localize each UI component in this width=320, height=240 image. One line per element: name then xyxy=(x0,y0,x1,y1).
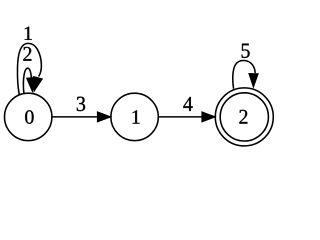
edge 0->1 arrowhead xyxy=(97,112,110,122)
edge 1->2 wire xyxy=(158,116,202,118)
self-loop 0->0 outer label 1 xyxy=(25,27,32,40)
state 2 inner circle xyxy=(220,93,268,141)
state 0 label xyxy=(25,110,33,123)
self-loop 0->0 inner spline xyxy=(23,68,31,93)
state 1 label xyxy=(133,110,140,123)
state 2 outer circle (accepting) xyxy=(215,88,273,146)
self-loop 0->0 inner arrowhead xyxy=(27,77,36,91)
edge 0->1 label 3 xyxy=(77,97,85,111)
self-loop 0->0 outer spline xyxy=(17,43,41,94)
edge 1->2 label 4 xyxy=(183,97,192,111)
state 1 circle xyxy=(111,93,158,140)
self-loop 2->2 label 5 xyxy=(242,44,250,58)
edge 0->1 wire xyxy=(52,116,98,118)
state 2 label xyxy=(239,110,247,124)
edge 1->2 arrowhead xyxy=(202,112,215,122)
self-loop 2->2 spline xyxy=(233,60,255,88)
self-loop 2->2 arrowhead xyxy=(249,74,258,88)
self-loop 0->0 inner label 2 xyxy=(23,47,31,61)
state 0 circle xyxy=(5,93,52,140)
self-loop 0->0 outer arrowhead xyxy=(33,77,42,92)
